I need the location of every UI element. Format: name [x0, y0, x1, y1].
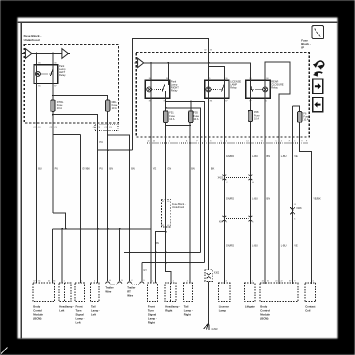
fuse block underhood pass-through dashed box: [161, 199, 170, 227]
svg-text:Lamp -: Lamp -: [184, 309, 193, 313]
svg-text:PU: PU: [55, 167, 59, 171]
svg-text:66: 66: [53, 281, 55, 283]
wire relay1 coil drop: [36, 54, 38, 65]
ground G301 symbol: [204, 323, 209, 330]
relay K4 rear closure: [246, 80, 270, 98]
svg-text:X84: X84: [219, 222, 224, 224]
svg-text:IP: IP: [301, 46, 304, 50]
wire GN-RD relay3 switch down: [223, 98, 225, 284]
wire upper feed horizontal to line2 drop: [166, 102, 205, 263]
svg-text:10 A: 10 A: [254, 116, 259, 120]
wire relay2 switch pin 87 stub: [165, 91, 167, 98]
svg-text:GN: GN: [167, 167, 171, 171]
svg-text:X302: X302: [214, 272, 220, 274]
node relay2 switch feed: [167, 62, 169, 64]
wire GY/BK branch from PU: [53, 134, 81, 136]
trailer wire connector arcs right pair: [127, 280, 145, 285]
connector front turn signal lamp left: [75, 283, 84, 301]
svg-text:42: 42: [162, 225, 164, 227]
svg-text:RT: RT: [127, 290, 131, 294]
wire feed to relay3 switch: [209, 66, 225, 80]
wire relay2 switch output vertical: [165, 98, 167, 110]
svg-text:1: 1: [81, 281, 82, 283]
wire relay3 coil through: [208, 80, 210, 98]
fuse F51: [164, 111, 168, 123]
connector headlamp left: [59, 283, 71, 301]
svg-text:20: 20: [275, 281, 277, 283]
svg-text:Left: Left: [91, 313, 96, 317]
svg-text:15: 15: [294, 204, 296, 206]
node fuse4 feed: [190, 101, 192, 103]
svg-text:Tail: Tail: [184, 305, 189, 309]
inline connector X423 on L-BU: [249, 175, 253, 181]
wire relay2 coil drop: [150, 63, 152, 81]
connector headlamp right: [165, 283, 176, 301]
svg-text:YE: YE: [153, 167, 157, 171]
splice link horizontal: [98, 149, 133, 151]
line2 junction dots: [150, 262, 152, 264]
svg-text:BN: BN: [155, 241, 159, 245]
connector tail lamp right pin numbers: [187, 281, 188, 283]
svg-text:Liftgate: Liftgate: [245, 305, 255, 309]
wire bus A drop headlamp left: [61, 229, 63, 283]
connector front turn signal lamp left pin numbers: [81, 281, 82, 283]
svg-text:9: 9: [294, 281, 295, 283]
svg-text:GN/RD: GN/RD: [226, 244, 234, 248]
svg-text:L-BU: L-BU: [281, 244, 287, 248]
node relay1 switch feed: [52, 53, 54, 55]
wire BN fuse2 down to trailer: [107, 111, 109, 281]
pin labels IP block bottom: [148, 140, 309, 142]
wire relay1 switch through-box: [52, 65, 54, 84]
wire relay4 coil feed stepped: [265, 62, 290, 284]
svg-text:Front: Front: [76, 305, 83, 309]
svg-text:9: 9: [301, 140, 302, 142]
wire main feed from IP corner: [133, 39, 209, 151]
page frame border top: [17, 21, 337, 23]
wire YE continues to turn right pin1: [150, 229, 152, 283]
wire park feed horizontal: [32, 53, 62, 55]
rotate arrow icon: [313, 61, 324, 77]
connector body control module BCM right pin numbers: [262, 281, 296, 283]
inline connector X206 on VE wire: [290, 204, 302, 221]
node branch turn right: [165, 231, 167, 233]
wire GY/BK turn left: [80, 135, 82, 284]
fuse F58: [248, 110, 252, 121]
svg-text:34: 34: [262, 281, 264, 283]
svg-text:BU: BU: [38, 167, 42, 171]
svg-text:Headlamp -: Headlamp -: [165, 305, 180, 309]
svg-text:VE: VE: [294, 154, 298, 158]
inline connector X84 on L-BU: [249, 216, 253, 222]
wire GY line2 to trailer arc4: [141, 263, 143, 282]
svg-text:Lamp: Lamp: [219, 309, 227, 313]
connector body control module BCM right: [260, 283, 298, 301]
svg-text:14: 14: [246, 140, 248, 142]
connector contact coil: [305, 283, 316, 301]
wire branch to turn signal right: [156, 232, 166, 284]
svg-text:1: 1: [152, 281, 153, 283]
prev arrow button: [313, 98, 323, 112]
svg-text:Body: Body: [33, 305, 40, 309]
inline connector X423 on GN/RD: [222, 175, 226, 181]
svg-text:Underhood: Underhood: [24, 38, 40, 42]
svg-text:Right: Right: [184, 313, 191, 317]
svg-text:BN: BN: [267, 154, 271, 158]
svg-text:65: 65: [48, 281, 50, 283]
off-page arrow out: [62, 49, 70, 59]
svg-text:GN/RD: GN/RD: [226, 196, 234, 200]
relay K2 park lamp right pin numbers: [149, 78, 169, 102]
inline connector X84 on GN/RD: [222, 216, 226, 222]
wire L-BU relay4 switch down to liftgate: [249, 98, 251, 110]
fuse F6: [298, 112, 302, 123]
connector front turn signal lamp right pin numbers: [152, 281, 153, 283]
fuse DRL 10A: [106, 100, 110, 111]
svg-text:Relay: Relay: [171, 88, 178, 92]
svg-text:Contol: Contol: [33, 309, 42, 313]
svg-text:BN: BN: [191, 167, 195, 171]
svg-text:Turn: Turn: [76, 309, 82, 313]
wire fuse feed to fuse2: [53, 96, 108, 101]
node lower feed: [165, 107, 167, 109]
svg-text:YE/BK: YE/BK: [313, 196, 321, 200]
svg-text:67: 67: [34, 281, 36, 283]
wire PU fuse1 down: [52, 111, 54, 213]
svg-text:L-BU: L-BU: [252, 244, 258, 248]
svg-text:Signal: Signal: [148, 313, 156, 317]
svg-text:Trailer: Trailer: [127, 286, 136, 290]
wire relay1 coil through-box: [36, 65, 38, 84]
svg-text:4: 4: [226, 140, 227, 142]
connector liftgate: [245, 283, 255, 301]
fuse block underhood dashed box: [24, 45, 118, 123]
wire lower feed horizontal to line1 drop: [166, 108, 201, 253]
svg-text:Relay: Relay: [271, 85, 278, 89]
svg-text:BN: BN: [109, 167, 113, 171]
relay K3 license lamp pin numbers: [208, 78, 228, 102]
svg-text:BN: BN: [267, 196, 271, 200]
fuse block IP dashed box: [136, 53, 309, 137]
off-page arrow into park lamp feed: [22, 49, 32, 59]
inline connector X423 dotted link and label: [218, 177, 255, 183]
ground wire below X302: [208, 281, 210, 323]
svg-text:(BCM): (BCM): [260, 317, 268, 321]
svg-text:Control: Control: [260, 309, 270, 313]
node splice at PU: [107, 149, 109, 151]
svg-text:Lamp -: Lamp -: [91, 309, 100, 313]
svg-text:6: 6: [294, 219, 295, 221]
svg-text:6: 6: [252, 222, 253, 224]
wire YE-BK fuse6 to contact coil: [300, 122, 312, 283]
connector tail lamp left pin numbers: [94, 281, 95, 283]
svg-text:Right: Right: [165, 309, 172, 313]
wire branch to tail lamps feed: [53, 115, 98, 125]
svg-text:Wire: Wire: [127, 294, 133, 298]
wire IP feed horizontal: [144, 63, 251, 81]
svg-text:43: 43: [167, 225, 169, 227]
node splice at wireY: [129, 149, 131, 151]
svg-text:Right: Right: [148, 321, 155, 325]
wire BK relay3 coil to ground: [208, 98, 210, 269]
node fuse feed split: [52, 95, 54, 97]
svg-text:GN/RD: GN/RD: [226, 154, 234, 158]
relay K2 park lamp right: [145, 80, 169, 98]
svg-text:5: 5: [205, 140, 206, 142]
wire branch BN to wireY: [108, 135, 130, 281]
svg-text:42: 42: [148, 140, 150, 142]
svg-text:L-BU: L-BU: [252, 154, 258, 158]
wire relay2 switch drop: [167, 63, 169, 81]
svg-text:42: 42: [162, 201, 164, 203]
wire relay4 coil through: [264, 80, 266, 98]
svg-text:G301: G301: [212, 328, 219, 331]
connector headlamp right pin numbers: [173, 281, 174, 283]
svg-text:Contact: Contact: [305, 305, 315, 309]
relay K1 park lamp left: [34, 65, 58, 84]
svg-text:Body: Body: [260, 305, 267, 309]
svg-text:10 A: 10 A: [57, 106, 62, 110]
connector body control module BCM left pin numbers: [34, 281, 56, 283]
inline connector X302 dashed box on ground wire: [205, 270, 220, 282]
svg-text:10 A: 10 A: [169, 117, 174, 121]
trailer wire connector arcs left pair: [105, 279, 123, 285]
svg-text:1: 1: [226, 222, 227, 224]
svg-text:Signal: Signal: [76, 313, 84, 317]
splice line2: [142, 262, 205, 264]
connector body control module BCM left: [33, 283, 55, 301]
node relay1 coil feed: [36, 53, 38, 55]
connector front turn signal lamp right: [148, 283, 158, 301]
svg-text:1: 1: [169, 140, 170, 142]
svg-text:1: 1: [252, 281, 253, 283]
wire BN relay4 coil down to BCM: [264, 98, 266, 283]
note icon top right: [312, 26, 324, 39]
line1 junction dots: [129, 252, 131, 254]
node upper feed: [165, 101, 167, 103]
connector license lamp pin numbers: [226, 281, 227, 283]
svg-text:10 A: 10 A: [303, 118, 308, 122]
svg-text:5: 5: [313, 281, 314, 283]
svg-text:X423: X423: [218, 178, 224, 180]
fuse F55: [189, 111, 193, 123]
wire relay2 coil through: [150, 80, 152, 98]
svg-text:BK: BK: [211, 167, 215, 171]
off-page arrow into IP block: [134, 58, 143, 67]
cursor artifact bottom-left: [1, 348, 8, 354]
node branch: [52, 114, 54, 116]
svg-text:Tail: Tail: [91, 305, 96, 309]
wire BU relay1 to BCM: [36, 84, 38, 284]
wire BN fuse4 down to tail right: [189, 123, 191, 284]
inline connector dotted box below left block: [95, 124, 118, 130]
node main feed junction: [208, 62, 210, 64]
svg-text:1: 1: [173, 281, 174, 283]
wire fuse6 feed stub: [293, 106, 300, 112]
svg-text:31: 31: [267, 281, 269, 283]
svg-text:Coil: Coil: [305, 309, 310, 313]
wire bus A drop trailer arc2: [119, 229, 121, 281]
svg-text:X206: X206: [296, 208, 302, 210]
relay K4 rear closure pin numbers: [249, 78, 269, 102]
wire relay1 switch out to fuse node: [52, 84, 54, 101]
connector liftgate pin numbers: [252, 281, 253, 283]
svg-text:Relay: Relay: [59, 73, 66, 77]
svg-text:Headlamp -: Headlamp -: [59, 305, 74, 309]
svg-text:Lamp -: Lamp -: [76, 317, 85, 321]
wire GN fuse3 down through pass connector to headlamp right: [166, 123, 171, 284]
next arrow button: [313, 79, 323, 93]
bus A junction dots: [61, 228, 63, 230]
svg-text:4: 4: [94, 281, 95, 283]
splice line1 fused feed: [124, 251, 201, 253]
svg-text:Underhood: Underhood: [172, 206, 185, 209]
svg-text:Left: Left: [76, 321, 81, 325]
svg-text:GY: GY: [143, 269, 147, 272]
svg-text:L-BU: L-BU: [281, 154, 287, 158]
wire fuse3 fuse4 bottom tie: [166, 125, 191, 127]
svg-text:22: 22: [281, 281, 283, 283]
svg-text:Wire: Wire: [105, 290, 111, 294]
wire relay4 switch through: [249, 80, 251, 98]
svg-text:43: 43: [167, 201, 169, 203]
connector tail lamp right: [183, 283, 192, 301]
node relay2 coil feed: [150, 62, 152, 64]
svg-text:GY/BK: GY/BK: [82, 167, 90, 171]
IP block bottom dotted connector line: [147, 142, 308, 144]
svg-text:64: 64: [38, 281, 40, 283]
svg-text:8: 8: [210, 140, 211, 142]
svg-text:PU: PU: [99, 140, 103, 144]
wire PU tail feed down: [97, 124, 99, 283]
svg-text:4: 4: [187, 281, 188, 283]
wire relay2 switch stub into blade: [167, 80, 169, 84]
svg-text:1: 1: [64, 281, 65, 283]
wire fuse4 top stub: [190, 102, 192, 111]
wire relay1 switch drop: [52, 54, 54, 65]
relay K3 license lamp: [205, 80, 229, 98]
svg-text:X7: X7: [289, 281, 291, 283]
svg-text:43: 43: [153, 140, 155, 142]
svg-text:Module: Module: [33, 313, 43, 317]
svg-text:10 A: 10 A: [193, 117, 198, 121]
fuse DTRL 10A left: [51, 100, 55, 111]
relay K1 park lamp left pin numbers: [38, 63, 57, 88]
splice bus A park lamps: [53, 213, 66, 229]
svg-text:Left: Left: [59, 309, 64, 313]
wire VE down to BCM: [292, 106, 294, 284]
connector license lamp: [218, 283, 230, 301]
svg-text:BN: BN: [131, 167, 135, 171]
svg-text:(BCM): (BCM): [33, 317, 41, 321]
connector headlamp left pin numbers: [64, 281, 65, 283]
svg-text:Lamp -: Lamp -: [148, 317, 157, 321]
svg-text:8: 8: [261, 140, 262, 142]
wire relay3 switch through: [223, 80, 225, 98]
svg-text:License: License: [219, 305, 230, 309]
svg-text:PU: PU: [99, 167, 103, 171]
svg-text:Relay: Relay: [230, 85, 237, 89]
inline connector X84 dotted link and label: [219, 219, 254, 224]
svg-text:Trailer: Trailer: [105, 286, 114, 290]
svg-text:Module: Module: [260, 313, 270, 317]
svg-text:4: 4: [281, 140, 282, 142]
wire relay3 coil drop: [208, 63, 210, 81]
svg-text:Turn: Turn: [148, 309, 154, 313]
connector tail lamp left: [91, 283, 99, 301]
svg-text:3: 3: [226, 281, 227, 283]
connector contact coil pin numbers: [313, 281, 314, 283]
wire YE relay2 coil down to splice: [150, 98, 152, 229]
node BN branch: [107, 134, 109, 136]
page frame border left: [20, 22, 22, 338]
svg-text:10 A: 10 A: [112, 106, 117, 110]
svg-text:VE: VE: [294, 244, 298, 248]
svg-text:L-BU: L-BU: [252, 196, 258, 200]
svg-text:Front: Front: [148, 305, 155, 309]
pin labels left block bottom: [33, 127, 112, 129]
svg-text:5: 5: [294, 140, 295, 142]
